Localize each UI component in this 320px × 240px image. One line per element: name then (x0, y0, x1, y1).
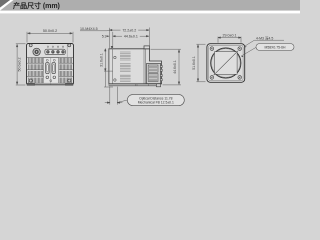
svg-text:10-M4X4.5: 10-M4X4.5 (80, 27, 98, 31)
svg-text:产品尺寸 (mm): 产品尺寸 (mm) (13, 1, 61, 10)
flange distance dimension 12.5 (105, 87, 128, 105)
middle view right vertical dimension 44.6±0.1 (151, 49, 182, 85)
svg-text:31.6±0.1: 31.6±0.1 (99, 53, 103, 67)
svg-text:50.0±0.2: 50.0±0.2 (18, 58, 22, 72)
right view lens mount circle (211, 48, 241, 78)
right view body (207, 44, 245, 83)
middle view connector 2 pins (148, 74, 158, 82)
left view corner screws (29, 44, 71, 82)
lens mount label M58X0.75-6H (256, 44, 294, 51)
dimension 44.6±0.1 over middle view (109, 28, 148, 48)
left view body (27, 44, 74, 85)
svg-text:50.0±0.2: 50.0±0.2 (43, 29, 57, 33)
left view panel centre line (50, 58, 52, 85)
right view left vertical dimension 51.6±0.1 (196, 44, 205, 82)
left view left dimension 50.0±0.2 (16, 44, 26, 85)
svg-text:5.9: 5.9 (102, 34, 107, 38)
middle view body outline (109, 49, 162, 84)
svg-text:72.2±0.2: 72.2±0.2 (122, 28, 136, 32)
middle view protruding pins right (160, 66, 162, 81)
middle view bottom right foot (156, 84, 160, 87)
middle view raised top block (144, 46, 150, 49)
left view round power connector (33, 48, 40, 55)
right view screw slot marks (211, 47, 241, 78)
note box: optical distance (127, 95, 184, 106)
svg-text:51.6±0.1: 51.6±0.1 (192, 56, 196, 70)
svg-text:44.6±0.1: 44.6±0.1 (173, 60, 177, 74)
left view top small circles on panel (46, 59, 48, 61)
middle view rear connector block (147, 63, 161, 83)
left view fin horizontal breaks (28, 64, 73, 77)
right view sensor diagonal (214, 51, 238, 75)
header dark corner triangle (0, 0, 10, 8)
left view tiny pin circles above connector (47, 46, 64, 47)
middle view back cover lines (144, 49, 145, 84)
svg-text:29.0±0.1: 29.0±0.1 (223, 33, 237, 37)
left view USB slot 2 (52, 63, 56, 74)
header white gap strip (0, 11, 300, 14)
left view 4-hole connector block (45, 49, 65, 54)
left view fins region left block (29, 58, 43, 83)
svg-text:44.6±0.1: 44.6±0.1 (124, 34, 138, 38)
right view sensor square (215, 52, 238, 75)
middle view bottom plate (109, 84, 162, 86)
right view inner offset line (209, 45, 244, 80)
middle view front plate line (112, 49, 114, 84)
middle view fins (horizontal lines) (120, 52, 131, 82)
dimension 72.2±0.2 over middle view (110, 28, 150, 46)
svg-text:M58X0.75-6H: M58X0.75-6H (265, 45, 286, 49)
header diagonal white stripe (0, 0, 14, 11)
header bar (0, 0, 300, 11)
right view lens mount inner circle (211, 49, 240, 78)
left view panel bottom circles (46, 76, 49, 79)
right view corner screws (210, 47, 241, 79)
left view USB slot 1 (46, 63, 50, 74)
right view top dimension 29.0±0.1 (218, 37, 241, 43)
svg-text:Mechanical FB 12.5±0.1: Mechanical FB 12.5±0.1 (138, 101, 174, 105)
middle view connector 1 pins (148, 65, 158, 72)
left view centre connector panel (44, 58, 59, 84)
left view top band divider line (66, 44, 68, 57)
leader from label to mount circle (241, 47, 256, 56)
middle view left vertical dimension 31.6±0.1 (104, 49, 113, 87)
svg-text:4-M3 深4.5: 4-M3 深4.5 (256, 35, 273, 40)
left view top dimension 50.0±0.2 (27, 32, 73, 43)
left view fins region right block (58, 58, 72, 83)
left view feet (27, 83, 35, 85)
middle view left screws (114, 56, 116, 58)
